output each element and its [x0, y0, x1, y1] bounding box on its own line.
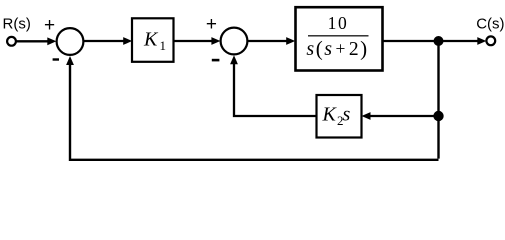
minus sign at summer S2: [212, 59, 220, 62]
wire K1 to summer S2: [174, 40, 214, 42]
svg-text:K: K: [322, 104, 338, 126]
wire plant to output terminal: [383, 40, 479, 42]
fraction bar: [308, 35, 369, 36]
wire input to summer S1: [16, 40, 49, 42]
svg-text:+: +: [44, 15, 55, 36]
svg-text:s(s+2): s(s+2): [306, 37, 368, 61]
wire K2s to summer S2 (inner feedback): [234, 62, 317, 116]
input terminal: [7, 37, 16, 46]
svg-text:s: s: [343, 104, 351, 126]
svg-text:10: 10: [328, 13, 349, 33]
node A (takeoff on output line): [434, 36, 444, 46]
summing junction S1: [57, 28, 84, 55]
minus sign at summer S1: [53, 58, 59, 60]
wire node B to block K2s: [369, 115, 439, 117]
wire vertical drop from node A to outer feedback: [437, 41, 439, 159]
svg-text:C(s): C(s): [476, 16, 504, 33]
svg-text:K: K: [143, 29, 159, 51]
summing junction S2: [221, 28, 248, 55]
svg-text:R(s): R(s): [3, 16, 31, 33]
svg-text:1: 1: [160, 38, 167, 53]
svg-text:+: +: [206, 14, 217, 35]
wire S2 to plant block: [248, 40, 288, 42]
output terminal: [486, 36, 495, 45]
block K1: [132, 18, 174, 62]
wire outer feedback to summer S1: [70, 62, 439, 160]
block K2s: [317, 95, 362, 138]
block G(s) = 10/(s(s+2)): [296, 7, 383, 70]
node B (takeoff for inner feedback): [433, 111, 443, 121]
wire S1 to block K1: [84, 40, 125, 42]
